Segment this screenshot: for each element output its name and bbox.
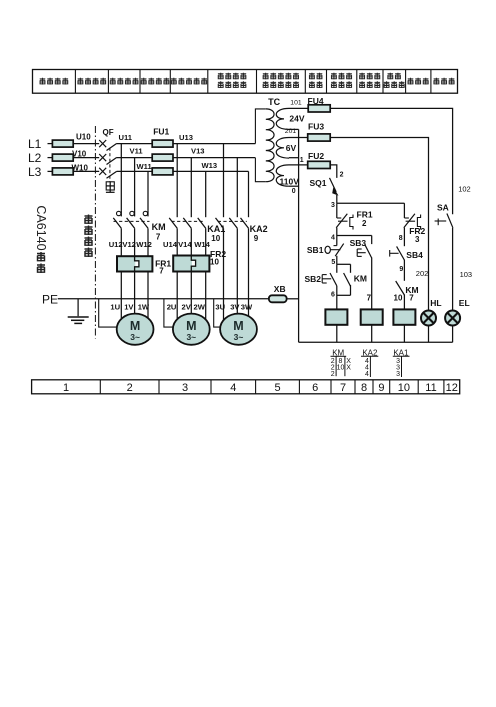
svg-text:QF: QF xyxy=(103,128,114,137)
relay KA2 contact 1 xyxy=(216,218,224,228)
svg-text:2W: 2W xyxy=(194,302,206,311)
motor M2 xyxy=(173,314,210,345)
svg-text:CA6140: CA6140 xyxy=(34,205,48,250)
wire xyxy=(120,228,122,256)
fuse W10 xyxy=(48,170,53,172)
wire xyxy=(190,272,192,331)
0 bottom rail xyxy=(299,341,453,343)
svg-text:4: 4 xyxy=(365,371,369,378)
svg-text:1V: 1V xyxy=(124,302,134,311)
breaker QF pole 2 xyxy=(99,154,117,165)
relay KA1 contact 2 xyxy=(183,218,191,228)
svg-text:3U: 3U xyxy=(215,302,225,311)
contactor KM main contact 3 xyxy=(140,210,148,228)
svg-text:FU3: FU3 xyxy=(308,122,324,132)
svg-text:3~: 3~ xyxy=(234,332,244,342)
KM linkage dashed xyxy=(114,220,150,222)
KM contact table xyxy=(331,348,352,378)
wire xyxy=(190,228,192,255)
svg-text:KM: KM xyxy=(152,222,166,232)
wire SQ1 to node3 xyxy=(336,195,338,203)
wire xyxy=(176,272,178,331)
pushbutton SB4 xyxy=(390,228,423,261)
svg-text:3V: 3V xyxy=(230,302,240,311)
wire drop V13 to KA1 xyxy=(190,158,192,218)
wire xyxy=(134,272,136,331)
equipment boundary dash-dot line xyxy=(94,126,96,339)
wire FU3 to HL line xyxy=(330,138,428,311)
wire 6V to FU3 xyxy=(289,137,308,139)
signal lamp HL xyxy=(421,298,442,342)
equipment boundary label (vertical) xyxy=(85,215,93,225)
svg-text:7: 7 xyxy=(340,382,346,394)
wire SB3 to KA2 coil xyxy=(371,258,373,310)
svg-text:L3: L3 xyxy=(28,165,42,179)
svg-text:SB2: SB2 xyxy=(305,274,322,284)
svg-text:TC: TC xyxy=(268,97,280,107)
svg-text:2: 2 xyxy=(340,172,344,179)
wire L2 to QF xyxy=(73,157,99,159)
KM NC interlock contact xyxy=(394,260,419,303)
svg-text:7: 7 xyxy=(367,294,372,303)
wire 110V bottom to 0 rail xyxy=(289,185,299,187)
svg-text:9: 9 xyxy=(378,382,384,394)
footer column-number table xyxy=(32,380,460,394)
svg-text:U14: U14 xyxy=(163,240,178,249)
motor M3 xyxy=(220,314,257,345)
TC primary connection rail lower xyxy=(255,158,265,182)
wire drop W13 to KA1 xyxy=(205,171,207,217)
pushbutton SB2 xyxy=(305,264,337,286)
svg-text:SB3: SB3 xyxy=(350,238,367,248)
wire XB to 0 rail xyxy=(287,298,299,300)
svg-text:W11: W11 xyxy=(137,162,153,171)
svg-text:7: 7 xyxy=(409,294,414,303)
svg-text:10: 10 xyxy=(337,365,345,372)
svg-text:X: X xyxy=(346,365,351,372)
pushbutton SB3 xyxy=(350,236,372,259)
svg-text:4: 4 xyxy=(230,382,236,394)
wire FU4 to EL line xyxy=(330,108,452,214)
svg-text:V12: V12 xyxy=(122,240,136,249)
fuse FU1 pole1 xyxy=(152,140,173,147)
svg-text:U11: U11 xyxy=(119,133,133,142)
svg-text:10: 10 xyxy=(394,294,403,303)
PE branch to motor M2 xyxy=(164,299,175,327)
svg-text:W13: W13 xyxy=(202,161,218,170)
KA1 contact table xyxy=(393,348,410,378)
svg-text:V14: V14 xyxy=(178,240,192,249)
svg-text:FR1: FR1 xyxy=(357,210,373,220)
svg-text:1U: 1U xyxy=(110,302,120,311)
wire SB2 to node6 xyxy=(336,286,338,310)
svg-text:2U: 2U xyxy=(167,302,177,311)
svg-text:6V: 6V xyxy=(286,143,297,153)
fuse FU1 pole3 xyxy=(152,168,173,175)
relay KA2 contact 2 xyxy=(229,218,237,228)
0 rail vertical xyxy=(298,129,300,342)
wire W13 xyxy=(173,170,249,172)
thermal relay FR1 heater xyxy=(117,256,152,271)
svg-text:SB4: SB4 xyxy=(406,250,423,260)
limit switch SQ1 xyxy=(310,178,339,196)
wire KA2 coil to 0 xyxy=(371,325,373,343)
svg-text:3: 3 xyxy=(396,371,400,378)
svg-text:3: 3 xyxy=(331,202,335,209)
svg-text:101: 101 xyxy=(290,100,302,107)
node 4 rail xyxy=(337,235,372,237)
relay KA1 contact 3 xyxy=(198,218,206,228)
svg-text:3: 3 xyxy=(182,382,188,394)
contactor KM main contact 2 xyxy=(127,210,135,228)
TC primary winding xyxy=(266,109,274,182)
wire xyxy=(176,228,178,255)
svg-text:7: 7 xyxy=(156,232,161,241)
wire drop V13 to KA2 xyxy=(236,158,238,218)
relay KA1 coil xyxy=(393,309,415,324)
svg-text:U12: U12 xyxy=(109,240,123,249)
svg-text:10: 10 xyxy=(210,258,219,267)
svg-text:L2: L2 xyxy=(28,151,42,165)
wire FR1 to node4 xyxy=(336,228,338,236)
svg-text:XB: XB xyxy=(274,284,286,294)
svg-text:SB1: SB1 xyxy=(307,245,324,255)
QF linkage dashed xyxy=(109,148,111,182)
svg-text:6: 6 xyxy=(331,292,335,299)
svg-text:HL: HL xyxy=(430,298,441,308)
svg-text:SQ1: SQ1 xyxy=(310,178,327,188)
wire FU2 to SQ1 xyxy=(330,165,337,178)
wire L1 to QF xyxy=(73,143,99,145)
svg-text:KM: KM xyxy=(354,273,367,283)
QF operating mechanism xyxy=(106,182,115,193)
wire W11 xyxy=(117,170,152,172)
TC primary connection rail upper xyxy=(255,109,265,144)
svg-text:12: 12 xyxy=(446,382,458,394)
wire xyxy=(147,228,149,256)
svg-text:2: 2 xyxy=(127,382,133,394)
wire xyxy=(147,272,149,331)
svg-text:8: 8 xyxy=(399,235,403,242)
svg-text:3: 3 xyxy=(415,235,420,244)
wire xyxy=(223,228,225,330)
wire drop U11 to KM xyxy=(120,144,122,211)
svg-text:9: 9 xyxy=(254,234,259,243)
header function table xyxy=(33,70,458,94)
breaker QF pole 1 xyxy=(99,140,117,151)
svg-text:10: 10 xyxy=(398,382,410,394)
PE branch to motor M3 xyxy=(214,299,222,327)
contactor KM main contact 1 xyxy=(113,210,121,228)
svg-text:3W: 3W xyxy=(241,302,253,311)
svg-text:6: 6 xyxy=(312,382,318,394)
wire xyxy=(134,228,136,256)
wire 6V bottom to 0 rail xyxy=(289,157,299,159)
svg-text:5: 5 xyxy=(331,259,335,266)
wire drop W13 to KA2 xyxy=(248,171,250,217)
ground symbol xyxy=(68,299,89,324)
svg-text:2: 2 xyxy=(362,219,367,228)
PE branch to motor M1 xyxy=(99,299,118,327)
wire V11 xyxy=(117,157,152,159)
wire xyxy=(205,272,207,331)
relay KA1 contact 1 xyxy=(169,218,177,228)
svg-text:9: 9 xyxy=(399,266,403,273)
svg-text:U10: U10 xyxy=(76,132,91,141)
PE wire xyxy=(58,298,269,300)
TC secondary 6V winding xyxy=(276,138,289,159)
wire xyxy=(236,228,238,330)
wire SB1 to node5 xyxy=(336,256,338,264)
wire drop U13 to KA1 xyxy=(176,144,178,218)
svg-text:FU1: FU1 xyxy=(153,126,169,136)
breaker QF pole 3 xyxy=(99,168,117,179)
svg-text:0: 0 xyxy=(292,188,296,195)
wire U11 xyxy=(117,143,152,145)
wire 24V bottom to 0 rail xyxy=(289,128,299,130)
svg-text:2V: 2V xyxy=(182,302,192,311)
wire L3 to QF xyxy=(73,170,99,172)
wire drop U13 to KA2 xyxy=(223,144,225,218)
node5 branch rail xyxy=(337,263,351,265)
KA2 linkage dashed xyxy=(218,220,247,222)
svg-text:3~: 3~ xyxy=(186,332,196,342)
TC secondary 110V winding xyxy=(276,165,289,186)
svg-text:W12: W12 xyxy=(136,240,152,249)
svg-text:KA1: KA1 xyxy=(207,224,225,234)
fuse U10 xyxy=(48,143,53,145)
wire drop W11 to KM xyxy=(147,171,149,210)
wire V13 xyxy=(173,157,255,159)
svg-text:V13: V13 xyxy=(191,146,205,155)
svg-text:L1: L1 xyxy=(28,137,42,151)
TC secondary 24V winding xyxy=(276,108,289,129)
wire xyxy=(120,272,122,331)
wire 24V to FU4 xyxy=(289,107,308,109)
svg-text:4: 4 xyxy=(331,235,335,242)
switch SA xyxy=(435,203,453,228)
lighting lamp EL xyxy=(445,228,470,342)
svg-text:202: 202 xyxy=(416,269,429,278)
svg-text:SA: SA xyxy=(437,203,449,213)
wire drop V11 to KM xyxy=(134,158,136,211)
relay KA2 coil xyxy=(361,309,383,324)
wire KA1 coil to 0 xyxy=(403,325,405,343)
FR1 NC contact xyxy=(336,203,373,229)
fuse FU1 pole2 xyxy=(152,154,173,161)
svg-text:5: 5 xyxy=(274,382,280,394)
wire KM contact to KA1 coil xyxy=(403,295,405,310)
contactor KM coil xyxy=(325,309,347,324)
svg-text:V11: V11 xyxy=(130,146,144,155)
relay KA2 contact 3 xyxy=(241,218,249,228)
wire xyxy=(248,228,250,330)
svg-text:1: 1 xyxy=(63,382,69,394)
node6 rail xyxy=(337,294,351,296)
svg-text:FU2: FU2 xyxy=(308,151,324,161)
svg-text:1W: 1W xyxy=(138,302,150,311)
KA2 contact table xyxy=(361,348,378,378)
svg-text:PE: PE xyxy=(42,293,58,307)
svg-text:24V: 24V xyxy=(289,113,304,123)
wire U13 xyxy=(173,143,255,145)
svg-text:2: 2 xyxy=(331,371,335,378)
svg-text:8: 8 xyxy=(361,382,367,394)
thermal relay FR2 heater xyxy=(173,256,209,272)
fuse V10 xyxy=(48,157,53,159)
wire xyxy=(205,228,207,255)
wire KM coil to 0 xyxy=(336,325,338,343)
wire 110V to FU2 xyxy=(289,164,307,166)
svg-text:EL: EL xyxy=(459,298,470,308)
KA1 linkage dashed xyxy=(172,220,206,222)
KM aux contact xyxy=(344,264,367,295)
svg-text:102: 102 xyxy=(458,185,471,194)
svg-text:10: 10 xyxy=(211,234,220,243)
svg-text:W14: W14 xyxy=(194,240,210,249)
svg-text:KA2: KA2 xyxy=(250,224,268,234)
svg-text:103: 103 xyxy=(460,270,473,279)
node 3 rail xyxy=(337,202,405,204)
title CA6140 lathe (vertical) xyxy=(34,205,48,250)
pushbutton SB1 xyxy=(307,236,344,257)
FR2 NC contact xyxy=(404,203,426,244)
svg-text:110V: 110V xyxy=(280,176,300,186)
svg-text:1: 1 xyxy=(300,157,304,164)
svg-text:3~: 3~ xyxy=(130,332,140,342)
motor M1 xyxy=(117,314,154,345)
svg-text:7: 7 xyxy=(159,266,164,275)
svg-text:11: 11 xyxy=(425,382,436,394)
svg-text:U13: U13 xyxy=(179,133,193,142)
